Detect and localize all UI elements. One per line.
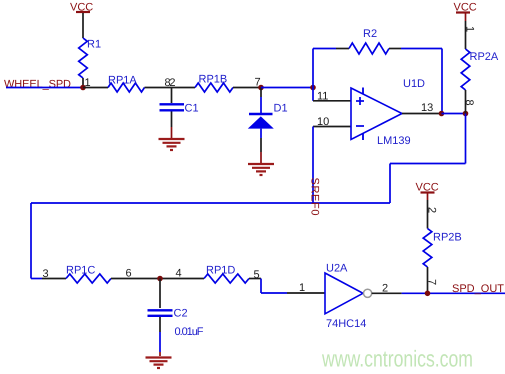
- pin number 1 (RP2A top, rotated): [464, 26, 476, 32]
- svg-text:10: 10: [317, 116, 329, 128]
- watermark www.cntronics.com: [321, 345, 473, 371]
- svg-text:U2A: U2A: [326, 263, 348, 275]
- wire node1 to RP1A: [83, 87, 108, 89]
- wire U2A pin1 lead: [287, 292, 325, 294]
- svg-text:8: 8: [463, 100, 475, 106]
- svg-text:82: 82: [165, 77, 176, 89]
- wire U1D output: [402, 113, 442, 115]
- svg-text:RP2B: RP2B: [433, 232, 462, 244]
- pin number 7 (RP2B bottom, rotated): [426, 279, 438, 285]
- pin number 2 (U2A output): [382, 283, 388, 295]
- pin number 7 (RP1B right): [255, 77, 261, 89]
- svg-text:7: 7: [426, 279, 438, 285]
- junction RP2A bottom node: [463, 111, 469, 117]
- svg-text:D1: D1: [274, 103, 288, 115]
- svg-text:R1: R1: [87, 39, 101, 51]
- wire RP1B to node 7: [233, 87, 261, 89]
- svg-text:13: 13: [421, 102, 433, 114]
- wire C1 bottom lead: [171, 112, 173, 139]
- pin number 6: [126, 268, 132, 280]
- svg-text:U1D: U1D: [403, 78, 425, 90]
- resistor RP1B: [195, 74, 233, 93]
- svg-text:RP2A: RP2A: [470, 51, 499, 63]
- wire feedback left vertical: [312, 49, 314, 88]
- wire WHEEL_SPD net: [6, 87, 83, 89]
- capacitor C2: [148, 308, 188, 320]
- wire C2 top lead: [159, 279, 161, 309]
- svg-text:0.01uF: 0.01uF: [175, 326, 204, 338]
- wire pin 10: [313, 126, 351, 128]
- resistor RP1A: [108, 75, 145, 93]
- svg-text:1: 1: [464, 26, 476, 32]
- wire to RP1C: [42, 278, 66, 280]
- svg-text:SPD_OUT: SPD_OUT: [452, 283, 504, 295]
- ground (below C1): [159, 139, 185, 150]
- svg-text:RP1D: RP1D: [206, 265, 235, 277]
- wire node7 to feedback junction: [261, 87, 313, 89]
- wire U2A output lead: [372, 292, 402, 294]
- wire SREF0 horizontal run: [31, 202, 390, 204]
- svg-text:1: 1: [299, 282, 305, 294]
- pin number 3: [43, 268, 49, 280]
- wire C2 bottom lead: [159, 317, 161, 356]
- resistor RP1C: [66, 265, 111, 284]
- junction node 1: [80, 85, 86, 91]
- junction C2 node: [157, 276, 163, 282]
- pin number 4: [176, 268, 182, 280]
- net label SREF0 (rotated): [309, 178, 321, 216]
- power symbol VCC (top-left): [70, 2, 93, 39]
- pin number 11: [317, 91, 328, 103]
- svg-text:www.cntronics.com: www.cntronics.com: [321, 345, 473, 371]
- pin number 1 (R1 bottom): [85, 77, 91, 89]
- svg-text:11: 11: [317, 91, 328, 103]
- svg-text:74HC14: 74HC14: [326, 318, 366, 330]
- net label SPD_OUT: [452, 283, 504, 295]
- wire corner down to U2A input: [261, 279, 287, 294]
- svg-text:5: 5: [254, 269, 260, 281]
- resistor RP2B: [423, 229, 462, 268]
- wire RP1D to corner: [249, 278, 261, 280]
- net label WHEEL_SPD: [4, 79, 71, 91]
- junction node 7: [258, 85, 264, 91]
- pin number 5: [254, 269, 260, 281]
- pin number 10: [317, 116, 329, 128]
- wire R2 left: [313, 48, 349, 50]
- wire RP1C to C2 node: [111, 278, 204, 280]
- resistor R2: [349, 28, 389, 54]
- wire RP1A to node 82: [145, 87, 196, 89]
- resistor RP2A: [461, 49, 499, 90]
- svg-text:C1: C1: [185, 103, 199, 115]
- pin number 2 (RP2B top, rotated): [426, 207, 438, 213]
- resistor RP1D: [204, 265, 249, 284]
- svg-text:R2: R2: [363, 28, 377, 40]
- wire pin 11: [313, 88, 351, 101]
- pin number 13: [421, 102, 433, 114]
- wire RP2A bottom lead: [465, 90, 467, 114]
- wire C1 top lead: [171, 88, 173, 104]
- value label 0.01uF: [175, 326, 204, 338]
- svg-text:4: 4: [176, 268, 182, 280]
- svg-text:3: 3: [43, 268, 49, 280]
- power symbol VCC (RP2B): [416, 182, 439, 229]
- wire RP2B bottom lead: [427, 267, 429, 293]
- svg-text:6: 6: [126, 268, 132, 280]
- wire D1 bottom lead: [260, 129, 262, 163]
- junction output/feedback: [439, 111, 445, 117]
- wire R2 right: [389, 48, 442, 50]
- wire from RP2A node down and across to SREF0 run: [390, 114, 466, 204]
- wire SREF0 vertical: [312, 127, 314, 204]
- svg-text:7: 7: [255, 77, 261, 89]
- svg-text:SREF0: SREF0: [309, 178, 321, 216]
- op-amp U1D: [351, 78, 425, 147]
- svg-text:RP1A: RP1A: [108, 75, 137, 87]
- svg-text:C2: C2: [174, 308, 188, 320]
- wire left loop down: [31, 203, 42, 279]
- wire SPD_OUT net: [402, 292, 505, 294]
- wire feedback right vertical: [441, 49, 443, 114]
- svg-text:WHEEL_SPD: WHEEL_SPD: [4, 79, 71, 91]
- svg-text:RP1B: RP1B: [199, 74, 228, 86]
- pin number 8 (RP2A bottom, rotated): [463, 100, 475, 106]
- power symbol VCC (top-right): [454, 2, 477, 50]
- svg-text:2: 2: [426, 207, 438, 213]
- wire D1 top lead: [260, 88, 262, 114]
- pin number 1 (U2A input): [299, 282, 305, 294]
- ground (below C2): [146, 358, 172, 369]
- wire output to RP2A node: [442, 113, 466, 115]
- ground (below D1): [248, 164, 274, 175]
- diode D1: [248, 103, 288, 129]
- junction SPD_OUT node: [425, 291, 431, 297]
- svg-text:RP1C: RP1C: [66, 265, 95, 277]
- pin numbers 82 (node): [165, 77, 176, 89]
- junction feedback node: [310, 85, 316, 91]
- inverter U2A: [325, 263, 372, 331]
- capacitor C1: [160, 103, 199, 115]
- svg-text:2: 2: [382, 283, 388, 295]
- svg-text:LM139: LM139: [377, 135, 411, 147]
- resistor R1: [79, 38, 101, 88]
